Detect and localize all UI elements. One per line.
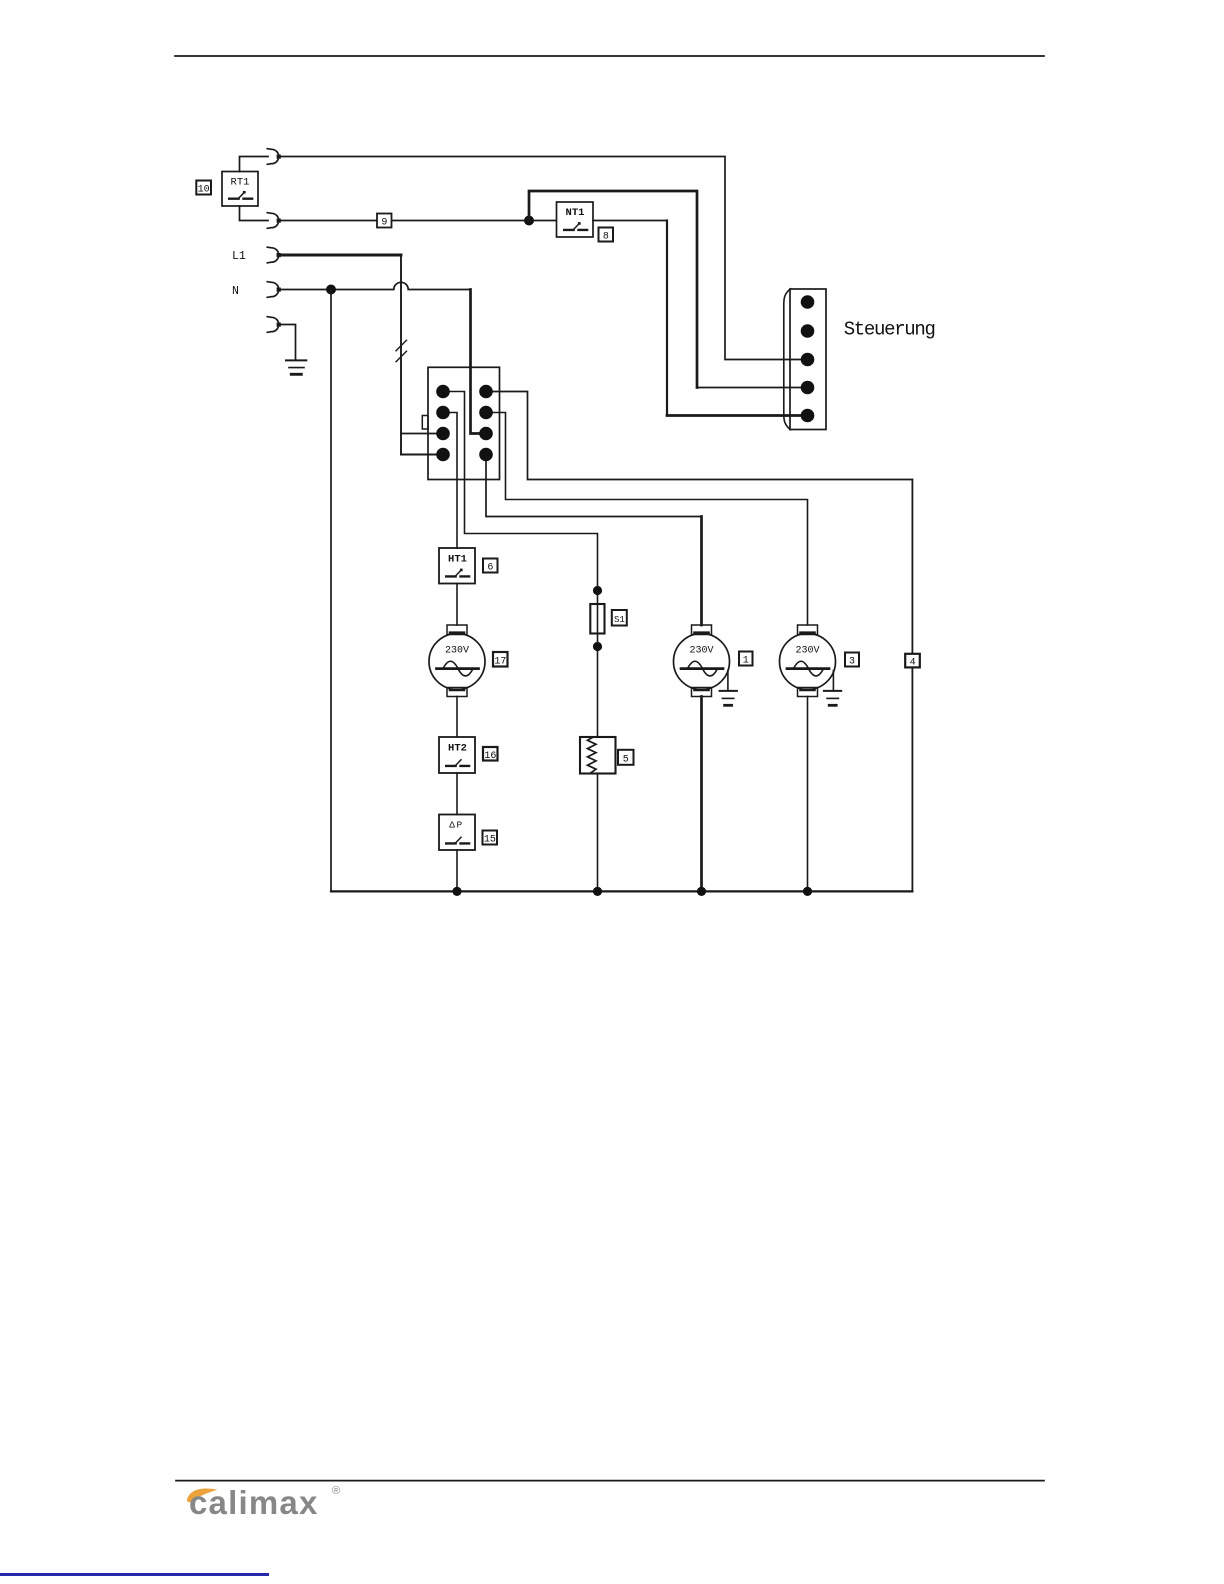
terminal X1:4 bbox=[436, 448, 450, 462]
svg-text:1: 1 bbox=[743, 656, 749, 667]
terminal X1:2 bbox=[436, 406, 450, 420]
svg-text:9: 9 bbox=[381, 218, 387, 229]
wire X1:2 to HT1 bbox=[443, 413, 457, 549]
svg-text:4: 4 bbox=[910, 658, 916, 669]
ground at motor M3 bbox=[824, 671, 841, 706]
label 3 bbox=[845, 653, 859, 668]
wire N junction down to bus bbox=[330, 290, 332, 892]
pressure switch dP bbox=[439, 815, 475, 851]
label 5 bbox=[618, 750, 634, 766]
svg-text:3: 3 bbox=[849, 657, 855, 668]
switch HT1 bbox=[439, 548, 475, 584]
fuse S1 bbox=[590, 604, 604, 634]
wire L1 bbox=[278, 254, 401, 257]
wire HT1 to motor M17 bbox=[456, 584, 458, 626]
ground at motor M1 bbox=[720, 671, 737, 706]
Steuerung pin 5 bbox=[801, 409, 815, 423]
Steuerung pin 4 bbox=[801, 381, 815, 395]
wire M3 to bus bbox=[807, 697, 809, 892]
wire X1:8 to motor M1 bbox=[486, 455, 702, 517]
wire RT1 top pin bbox=[240, 157, 269, 172]
svg-text:N: N bbox=[232, 285, 239, 298]
wire node 4 column upper bbox=[911, 480, 913, 655]
svg-text:10: 10 bbox=[198, 185, 210, 196]
Steuerung connector body bbox=[790, 289, 826, 430]
footer blue line bbox=[0, 1573, 269, 1576]
svg-text:ΔP: ΔP bbox=[449, 820, 463, 831]
svg-text:8: 8 bbox=[603, 232, 609, 243]
svg-text:S1: S1 bbox=[614, 615, 625, 625]
wire X1:5 to node 4 column bbox=[486, 392, 912, 480]
wire NT1 to Steuerung pin 5 bbox=[593, 220, 667, 222]
wire M1 to bus bbox=[700, 697, 703, 892]
node fuse S1 top bbox=[593, 586, 602, 595]
svg-text:NT1: NT1 bbox=[566, 207, 585, 219]
calimax swoosh bbox=[187, 1489, 218, 1503]
thermostat NT1 bbox=[557, 202, 594, 237]
motor M3 230V bbox=[780, 625, 836, 697]
svg-text:HT1: HT1 bbox=[448, 554, 467, 566]
svg-text:230V: 230V bbox=[795, 646, 819, 657]
label 17 bbox=[493, 652, 508, 667]
wire RT1 bottom pin bbox=[240, 206, 269, 221]
node bus / M3 column bbox=[803, 887, 812, 896]
node fuse S1 bottom bbox=[593, 642, 602, 651]
node bus / HT column bbox=[452, 887, 461, 896]
motor M1 230V bbox=[674, 625, 730, 697]
label 9 bbox=[377, 214, 392, 229]
node bus / heater column bbox=[593, 887, 602, 896]
svg-text:15: 15 bbox=[484, 835, 496, 846]
wire dP to bus bbox=[456, 850, 458, 891]
label 10 bbox=[196, 181, 211, 196]
wire L1 branch to terminal X1:3 bbox=[401, 433, 438, 435]
svg-text:HT2: HT2 bbox=[448, 743, 467, 755]
wire junction to Steuerung pin 4 bbox=[529, 191, 697, 388]
bus wire N return bbox=[331, 890, 912, 892]
svg-text:5: 5 bbox=[623, 755, 629, 766]
cable marker slashes bbox=[396, 340, 407, 362]
connector J5 PE bbox=[267, 317, 281, 333]
page bottom rule bbox=[176, 1480, 1044, 1482]
page top rule bbox=[175, 55, 1044, 57]
heating element 5 bbox=[580, 737, 616, 774]
wire through fuse S1 bbox=[597, 591, 599, 738]
connector J3 L1 bbox=[267, 247, 281, 263]
switch HT2 bbox=[439, 737, 475, 773]
terminal X1:8 bbox=[479, 448, 493, 462]
wire M17 to HT2 bbox=[456, 697, 458, 738]
svg-text:17: 17 bbox=[494, 656, 506, 667]
wire L1 to terminal X1:4 bbox=[401, 454, 438, 456]
wire HT2 to dP bbox=[456, 773, 458, 815]
svg-text:230V: 230V bbox=[445, 646, 469, 657]
label S1 bbox=[612, 610, 627, 626]
calimax logo bbox=[189, 1484, 319, 1522]
terminal block X1 side tab bbox=[422, 416, 428, 430]
terminal block X1 bbox=[428, 367, 500, 479]
terminal X1:6 bbox=[479, 406, 493, 420]
Steuerung pin 2 bbox=[801, 324, 815, 338]
label 1 bbox=[739, 652, 753, 667]
node junction on wire 9 bbox=[524, 216, 534, 226]
ground PE symbol bbox=[278, 325, 306, 375]
terminal X1:5 bbox=[479, 385, 493, 399]
wire N to terminal X1:7 bbox=[471, 290, 483, 434]
connector J4 N bbox=[267, 282, 281, 298]
svg-text:16: 16 bbox=[484, 751, 496, 762]
svg-text:230V: 230V bbox=[689, 646, 713, 657]
svg-text:6: 6 bbox=[487, 563, 493, 574]
thermostat RT1 bbox=[222, 172, 258, 207]
terminal X1:1 bbox=[436, 385, 450, 399]
Steuerung connector bracket bbox=[784, 289, 791, 430]
svg-text:L1: L1 bbox=[232, 250, 246, 263]
label 15 bbox=[483, 831, 498, 846]
wire N with hop bbox=[278, 282, 471, 289]
terminal X1:3 bbox=[436, 427, 450, 441]
wire 9 segment bbox=[278, 220, 556, 222]
label 8 bbox=[599, 228, 614, 243]
wire X1:6 to motor M3 bbox=[486, 413, 808, 626]
connector J2 (RT1 loop in) bbox=[267, 213, 281, 229]
wire heater 5 to bus bbox=[597, 774, 599, 892]
svg-text:Steuerung: Steuerung bbox=[844, 318, 935, 340]
label 6 bbox=[483, 559, 498, 574]
terminal X1:7 bbox=[479, 427, 493, 441]
wire node 4 column lower bbox=[911, 667, 913, 891]
node bus / M1 column bbox=[697, 887, 706, 896]
label 16 bbox=[483, 747, 498, 762]
motor M17 230V bbox=[429, 625, 485, 697]
Steuerung pin 3 bbox=[801, 353, 815, 367]
wire RT1 to Steuerung pin 3 bbox=[278, 157, 806, 360]
svg-text:RT1: RT1 bbox=[231, 177, 250, 189]
connector J1 (RT1 loop out) bbox=[267, 149, 281, 165]
Steuerung pin 1 bbox=[801, 295, 815, 309]
node N junction bbox=[326, 285, 336, 295]
label 4 bbox=[905, 654, 920, 669]
wire X1:1 to fuse S1 column bbox=[443, 392, 598, 591]
